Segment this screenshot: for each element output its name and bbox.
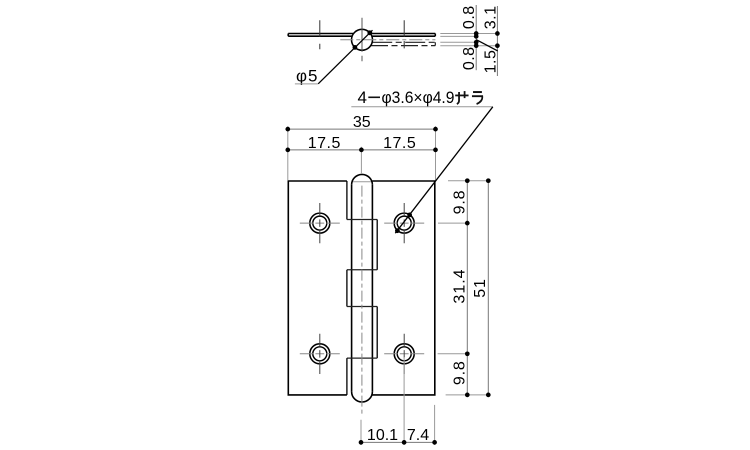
top leaf upper edge line left of knuckle circle bbox=[288, 33, 353, 35]
dot 10.1 right / 7.4 left bbox=[402, 440, 407, 445]
leader dot on hole upper-right bbox=[407, 213, 412, 218]
centerline horizontal hole top-left bbox=[300, 222, 340, 224]
extension line right upper hole bbox=[438, 222, 470, 224]
dimension line thickness (0.8 pair) bbox=[475, 5, 477, 70]
svg-text:φ3.6×φ4.9: φ3.6×φ4.9 bbox=[382, 88, 455, 107]
extension line lower leaf top bbox=[440, 41, 478, 43]
extension line top surface (0.8/3.1 upper) bbox=[440, 33, 499, 35]
leader dot on circle lower-left bbox=[353, 45, 358, 50]
hidden lower leaf right end cap (dashed) bbox=[434, 42, 436, 45]
top leaf left end cap bbox=[287, 34, 289, 37]
knuckle barrel right edge bbox=[371, 185, 373, 392]
label katakana RA bbox=[472, 92, 482, 104]
extension line bottom center bbox=[360, 420, 362, 445]
label long dash bbox=[368, 96, 380, 98]
dot 7.4 right bbox=[432, 440, 437, 445]
left jog edge segment 5 bbox=[346, 358, 348, 395]
label underline bbox=[351, 106, 493, 108]
extension line lower leaf bottom bbox=[440, 45, 499, 47]
extension line bottom right edge bbox=[434, 405, 436, 445]
knuckle division line D2 bbox=[347, 269, 377, 271]
right jog edge segment 4 bbox=[376, 307, 378, 359]
slash for 1.5 dimension bbox=[476, 40, 497, 51]
hole top-right outer bbox=[394, 213, 414, 233]
leader dot on hole lower-left bbox=[395, 228, 400, 233]
dot 0.8 top upper bbox=[474, 31, 479, 36]
dot 9.8 bottom lower bbox=[465, 393, 470, 398]
svg-text:9.8: 9.8 bbox=[452, 360, 469, 385]
extension line right bottom edge bbox=[446, 394, 491, 396]
svg-text:17.5: 17.5 bbox=[383, 135, 416, 152]
centerline vertical hole bottom-left bbox=[319, 334, 321, 374]
leaf edge chord behind knuckle top bbox=[352, 181, 373, 183]
right leaf outline bbox=[372, 181, 434, 395]
knuckle division line D1 bbox=[347, 219, 377, 221]
top leaf right end cap bbox=[434, 34, 436, 37]
dot 0.8 top lower bbox=[474, 34, 479, 39]
hole bottom-right inner bbox=[397, 347, 411, 361]
hole top-left inner bbox=[313, 216, 327, 230]
dot 17.5 right bbox=[433, 148, 438, 153]
dot 3.1 top bbox=[495, 31, 500, 36]
dimension line 17.5 17.5 bbox=[288, 149, 436, 151]
left jog edge segment 1 bbox=[346, 181, 348, 220]
dot 17.5 middle bbox=[359, 148, 364, 153]
centerline horizontal hole top-right bbox=[384, 222, 424, 224]
svg-text:0.8: 0.8 bbox=[461, 46, 478, 70]
dot 0.8 bottom lower bbox=[474, 43, 479, 48]
knuckle division line D3 bbox=[347, 306, 377, 308]
svg-text:1.5: 1.5 bbox=[483, 50, 500, 74]
vertical centerline of knuckle circle bbox=[361, 18, 363, 62]
leader dot on circle upper-right bbox=[367, 30, 372, 35]
extension line right edge (top dims) bbox=[435, 126, 437, 180]
knuckle barrel centerline bbox=[361, 186, 363, 415]
dot 31.4 lower / 9.8 bottom upper bbox=[465, 351, 470, 356]
knuckle bottom arc bbox=[352, 392, 373, 402]
extension line left edge (top dims) bbox=[287, 126, 289, 180]
hole bottom-right outer bbox=[394, 344, 414, 364]
hidden lower leaf lower edge (dashed) bbox=[371, 45, 435, 47]
label katakana SA bbox=[455, 91, 468, 104]
knuckle barrel left edge bbox=[351, 185, 353, 392]
centerline horizontal hole bottom-right bbox=[384, 353, 424, 355]
svg-text:7.4: 7.4 bbox=[407, 427, 429, 444]
extension line bottom hole bbox=[403, 357, 405, 445]
dot 10.1 left bbox=[359, 440, 364, 445]
dimension line overall 3.1 bbox=[496, 6, 498, 76]
svg-text:4: 4 bbox=[358, 88, 367, 107]
dot 0.8 bottom upper bbox=[474, 40, 479, 45]
top leaf upper edge line right of knuckle circle bbox=[370, 33, 435, 35]
extension line center (top dims) bbox=[360, 147, 362, 174]
dimension line 9.8/31.4/9.8 bbox=[466, 181, 468, 395]
dimension line 10.1/7.4 bbox=[361, 441, 435, 443]
svg-text:17.5: 17.5 bbox=[308, 135, 341, 152]
svg-text:10.1: 10.1 bbox=[367, 427, 398, 444]
knuckle circle φ5 bbox=[352, 29, 373, 50]
leader line to countersunk hole bbox=[395, 107, 493, 233]
centerline horizontal hole bottom-left bbox=[300, 353, 340, 355]
hole top-left outer bbox=[310, 213, 330, 233]
leader line phi5 bbox=[318, 30, 372, 84]
svg-text:9.8: 9.8 bbox=[452, 190, 469, 215]
extension line right lower hole bbox=[438, 353, 470, 355]
dot 17.5 left bbox=[285, 148, 290, 153]
dot 9.8 top lower / 31.4 upper bbox=[465, 221, 470, 226]
svg-text:0.8: 0.8 bbox=[461, 5, 478, 29]
svg-text:3.1: 3.1 bbox=[483, 6, 500, 30]
knuckle top arc bbox=[352, 174, 373, 184]
right jog edge segment 2 bbox=[376, 220, 378, 270]
dot 35 right bbox=[433, 127, 438, 132]
dimension line 35 bbox=[288, 128, 436, 130]
centerline vertical hole bottom-right bbox=[403, 334, 405, 374]
dot 51 bottom bbox=[486, 393, 491, 398]
hidden lower leaf upper edge (dashed) bbox=[372, 41, 435, 43]
vertical centerline right hole (top view) bbox=[403, 20, 405, 48]
dot 9.8 top upper bbox=[465, 178, 470, 183]
extension line right top edge bbox=[448, 180, 491, 182]
extension line top leaf bottom bbox=[440, 35, 478, 37]
left jog edge segment 3 bbox=[346, 270, 348, 307]
svg-text:31.4: 31.4 bbox=[452, 268, 469, 303]
left leaf outline bbox=[288, 181, 347, 395]
underline of phi5 bbox=[295, 83, 318, 85]
dot 3.1 bottom bbox=[495, 43, 500, 48]
top leaf lower edge line left of knuckle circle bbox=[288, 35, 352, 37]
svg-text:φ5: φ5 bbox=[296, 67, 318, 86]
horizontal centerline of top view bbox=[340, 39, 435, 41]
vertical centerline left hole (top view) bbox=[319, 20, 321, 49]
hole bottom-left outer bbox=[310, 344, 330, 364]
hole top-right inner bbox=[397, 216, 411, 230]
hole bottom-left inner bbox=[313, 347, 327, 361]
svg-text:35: 35 bbox=[353, 114, 371, 131]
knuckle division line D4 bbox=[347, 357, 377, 359]
top leaf lower edge line right of knuckle circle bbox=[372, 35, 435, 37]
dimension line 51 bbox=[487, 181, 489, 395]
centerline vertical hole top-left bbox=[319, 203, 321, 243]
dot 51 top bbox=[486, 178, 491, 183]
dot 35 left bbox=[285, 127, 290, 132]
centerline vertical hole top-right bbox=[403, 203, 405, 243]
svg-text:51: 51 bbox=[472, 278, 489, 297]
